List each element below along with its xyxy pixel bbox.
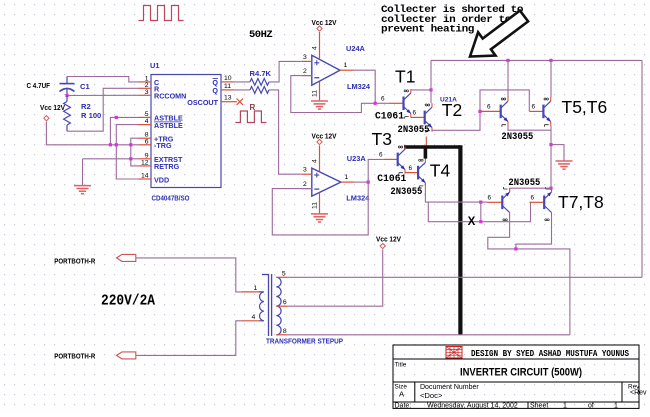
svg-text:6: 6 [413, 109, 417, 116]
junction U23A output node [367, 181, 370, 184]
wire: C1 top plate to U1 pin 1 [67, 77, 139, 82]
wire: output node up to T3 base [368, 159, 384, 182]
U24A pin11 + ground [311, 82, 328, 110]
svg-text:6: 6 [381, 95, 385, 102]
junction emitter bus at T7/T8 [549, 187, 552, 190]
junction T5 base node [478, 110, 481, 113]
svg-text:6: 6 [488, 195, 492, 202]
wire: X loop down [428, 202, 530, 222]
junction T7 base node [479, 201, 482, 204]
svg-text:2: 2 [303, 68, 307, 75]
title block frame [393, 345, 639, 408]
svg-text:2N3055: 2N3055 [398, 125, 430, 136]
svg-text:PORTBOTH-R: PORTBOTH-R [54, 354, 95, 361]
svg-text:Vcc 12V: Vcc 12V [376, 235, 401, 244]
capacitor C1 [60, 77, 75, 96]
svg-text:T5,T6: T5,T6 [562, 97, 608, 117]
wire: U1 pin 5 branch [110, 117, 138, 144]
svg-text:T7,T8: T7,T8 [558, 192, 604, 212]
wire: Vcc to U1 pin 6 row [46, 122, 138, 145]
svg-text:4: 4 [145, 118, 149, 125]
resistor R (lower 4.7K) [250, 87, 269, 94]
svg-text:14: 14 [141, 173, 149, 180]
svg-text:T4: T4 [430, 161, 451, 181]
wire: Vcc to U24A pin4 [319, 32, 321, 59]
junction X row [479, 220, 482, 223]
wire: transformer pin8 long line [288, 334, 570, 336]
label R2 / R 100 [81, 102, 101, 120]
svg-text:C 4.7UF: C 4.7UF [27, 81, 51, 90]
svg-text:6: 6 [532, 104, 536, 111]
svg-text:1: 1 [345, 174, 349, 181]
ground (T5/T6 emitters) [556, 145, 573, 170]
thick net: T3/T4 collectors + T2 emitter bus (horizontal) [404, 145, 460, 149]
svg-text:2: 2 [145, 82, 149, 89]
junction U24A output node [374, 102, 377, 105]
U23A pin2 stub [302, 181, 312, 189]
wire: R4.7K to U24A pin3 [269, 61, 302, 82]
top collector rail [431, 59, 642, 61]
svg-text:U1: U1 [150, 61, 159, 70]
svg-text:Vcc 12V: Vcc 12V [312, 18, 337, 27]
power symbol Vcc 12V (left) [40, 103, 65, 121]
svg-text:of: of [588, 402, 594, 409]
svg-text:Vcc 12V: Vcc 12V [40, 103, 65, 112]
svg-text:Title: Title [395, 362, 407, 369]
IC U1 CD4047B/SO body [151, 75, 221, 188]
junction emitters/ground [549, 143, 552, 146]
svg-text:2N3055: 2N3055 [508, 178, 540, 189]
svg-text:9: 9 [145, 152, 149, 159]
transistor T8 2N3055 (flipped) [530, 195, 545, 203]
svg-text:Sheet: Sheet [530, 402, 548, 409]
transistor T4 2N3055 [418, 158, 425, 188]
svg-text:CD4047B/SO: CD4047B/SO [152, 194, 190, 203]
svg-text:DESIGN BY SYED ASHAD MUSTUFA Y: DESIGN BY SYED ASHAD MUSTUFA YOUNUS [471, 348, 629, 359]
wire: U24A feedback loop [291, 76, 375, 113]
wire: T7 collector path [488, 216, 570, 334]
svg-text:LM324: LM324 [347, 82, 371, 91]
svg-text:2N3055: 2N3055 [501, 132, 533, 143]
wire: U23A output stub to node [354, 181, 368, 183]
note arrow (hollow, pointing down-left) [470, 11, 528, 57]
wire: T7/T8 emitter row [510, 187, 552, 189]
wire: lower resistor to U23A pin3 [269, 90, 302, 174]
junction pin5 vertical [109, 143, 112, 146]
svg-text:6: 6 [409, 165, 413, 172]
U24A output pin1 stub [340, 62, 353, 70]
transistor T5 2N3055 [501, 97, 508, 127]
op-amp U24A [312, 55, 340, 85]
U1 right pin stubs 10/11/13 [221, 75, 237, 102]
wire: U1 pins 4/14 branch [116, 125, 138, 179]
junction T1 collector / rail drop [429, 88, 432, 91]
op-amp U23A [312, 168, 341, 196]
junction: C1/R2/pin3 node [65, 94, 68, 97]
svg-text:-TRG: -TRG [154, 141, 172, 150]
transistor T7 2N3055 (flipped) [487, 195, 503, 203]
transistor T2 2N3055 [411, 109, 425, 117]
svg-text:TRANSFORMER STEPUP: TRANSFORMER STEPUP [266, 337, 343, 346]
svg-text:C1061: C1061 [377, 174, 406, 185]
svg-text:4: 4 [252, 314, 256, 321]
svg-text:3: 3 [303, 54, 307, 61]
svg-text:PORTBOTH-R: PORTBOTH-R [54, 258, 95, 265]
svg-text:6: 6 [145, 138, 149, 145]
port PORTBOTH-R (upper) [54, 254, 136, 265]
svg-text:2: 2 [303, 181, 307, 188]
wire: right edge vertical (rail to transformer pin5) [641, 60, 643, 277]
U1 left pin stubs with numbers [139, 75, 152, 179]
svg-text:4: 4 [312, 159, 319, 163]
transformer pin numbers 1/4/5/6/8 [252, 270, 287, 335]
wire: T5 collector riser [507, 60, 509, 97]
title block logo [446, 347, 462, 359]
svg-text:6: 6 [487, 104, 491, 111]
transformer TRANSFORMER STEPUP [242, 274, 288, 336]
svg-text:8: 8 [283, 328, 287, 335]
wire: T5 emitter to T6 emitter row [508, 125, 551, 130]
junction pin4/Vcc crossing [115, 143, 118, 146]
svg-text:4: 4 [312, 46, 319, 50]
power symbol Vcc 12V (U24A) [312, 18, 337, 31]
wire: X loop mid riser [480, 202, 482, 222]
svg-text:prevent heating: prevent heating [381, 24, 474, 36]
svg-text:C1: C1 [80, 82, 90, 91]
U24A pin2 stub [302, 68, 312, 76]
svg-text:R4.7K: R4.7K [250, 69, 272, 78]
svg-text:220V/2A: 220V/2A [101, 293, 155, 310]
wire: U1 pin11 to lower resistor [234, 89, 251, 91]
svg-text:Date:: Date: [395, 402, 412, 409]
resistor R4.7K (upper) [250, 79, 269, 86]
svg-text:5: 5 [282, 270, 286, 277]
junction rail/T5 collector [506, 59, 509, 62]
note: collector shorted text [381, 4, 523, 36]
svg-text:11: 11 [312, 90, 319, 97]
wire: to ground stub [551, 144, 564, 146]
wire: emitter bus down [550, 125, 552, 188]
wire: T7 emitter stub join [509, 188, 511, 192]
svg-text:T2: T2 [442, 100, 462, 120]
svg-text:Vcc 12V: Vcc 12V [312, 132, 337, 141]
wire: transformer pin6 to Vcc [288, 249, 383, 306]
wire: T4 emitter to T7 base row [425, 187, 486, 202]
svg-text:T3: T3 [372, 129, 392, 149]
svg-text:1: 1 [614, 402, 618, 409]
wire: top rail vertical drop to T2 collector [430, 60, 432, 103]
svg-text:LM324: LM324 [346, 194, 370, 203]
svg-text:50HZ: 50HZ [249, 29, 272, 41]
U1 pin name labels [154, 78, 219, 185]
svg-text:T1: T1 [395, 67, 415, 87]
U23A pin11 + ground [311, 192, 328, 222]
svg-text:1: 1 [254, 285, 258, 292]
no-connect X on pin 13 [237, 99, 243, 105]
svg-text:1: 1 [563, 402, 567, 409]
thick net: stub down to T4 collector [424, 147, 428, 159]
square-wave symbol (pin13) [235, 111, 266, 123]
wire: upper port to transformer pin1 [136, 258, 242, 292]
U23A output pin1 stub [341, 174, 354, 182]
svg-text:Wednesday, August 14, 2002: Wednesday, August 14, 2002 [427, 402, 518, 409]
port PORTBOTH-R (lower) [54, 352, 136, 361]
svg-text:<Rev: <Rev [630, 390, 647, 397]
svg-text:6: 6 [531, 195, 535, 202]
junction pins8-12/Vcc [129, 143, 132, 146]
svg-text:VDD: VDD [154, 176, 169, 185]
svg-text:10: 10 [224, 75, 232, 82]
svg-text:INVERTER CIRCUIT (500W): INVERTER CIRCUIT (500W) [460, 367, 582, 379]
svg-text:R2: R2 [81, 102, 91, 111]
svg-text:5: 5 [145, 111, 149, 118]
wire: T2 emitter to T5/T6 base drive [432, 111, 480, 131]
wire: lower port to transformer pin4 [136, 321, 242, 356]
svg-text:1: 1 [344, 62, 348, 69]
svg-text:11: 11 [312, 202, 319, 209]
wire: T2 emitter drop to thick bus [425, 137, 427, 147]
size row labels [395, 384, 648, 401]
svg-text:<Doc>: <Doc> [420, 391, 443, 400]
ground (U1 area) [74, 159, 91, 194]
wire: U24A output down to T1 base row [353, 70, 375, 103]
svg-text:R 100: R 100 [81, 111, 101, 120]
wire: T6 base stub [529, 104, 543, 112]
wire: T5 base stub [480, 104, 501, 112]
wire: ground to U1 pin 9 [83, 158, 139, 160]
svg-text:RCCOMN: RCCOMN [154, 92, 186, 101]
svg-text:ASTBLE: ASTBLE [154, 121, 183, 130]
junction rail/T6 collector [549, 59, 552, 62]
svg-text:12: 12 [141, 159, 149, 166]
svg-text:11: 11 [224, 83, 231, 90]
wire: output node to T1 base [375, 102, 389, 104]
svg-text:U23A: U23A [347, 154, 367, 163]
wire: U1 pins 8/12 branch [131, 138, 139, 166]
transistor T6 2N3055 [543, 97, 550, 127]
svg-text:13: 13 [224, 95, 232, 102]
power symbol Vcc 12V (U23A) [312, 132, 337, 145]
resistor R2 [64, 96, 71, 132]
svg-text:2N3055: 2N3055 [390, 187, 422, 198]
svg-text:Q: Q [212, 86, 218, 95]
svg-text:3: 3 [303, 167, 307, 174]
date row labels [395, 402, 619, 409]
wire: transformer pin5 to right edge [288, 276, 642, 278]
U23A pin3 stub [302, 167, 312, 175]
svg-text:6: 6 [283, 299, 287, 306]
transistor T3 C1061 [379, 151, 398, 159]
wire: U23A feedback loop [272, 182, 368, 235]
svg-text:3: 3 [145, 89, 149, 96]
svg-text:RETRG: RETRG [154, 162, 180, 171]
svg-text:OSCOUT: OSCOUT [187, 98, 218, 107]
wire: T8 collector path [516, 216, 552, 249]
svg-text:C1061: C1061 [375, 111, 404, 122]
wire: T3 collector stub to thick bus [404, 147, 406, 150]
wire: T1 collector to rail corner [411, 89, 431, 91]
wire: node to U1 pin 3 [67, 94, 139, 96]
transistor T1 C1061 [381, 95, 404, 103]
svg-text:Document Number: Document Number [420, 384, 479, 391]
svg-text:X: X [468, 216, 476, 228]
wire: U1 pin10 to R4.7K [234, 81, 251, 83]
thick net: main vertical to transformer pin8 line [458, 145, 462, 335]
svg-text:6: 6 [379, 151, 383, 158]
wire: T3 emitter to T4 base [405, 172, 418, 174]
U24A pin3 stub [302, 54, 312, 62]
wire: Vcc to U23A pin4 [319, 145, 321, 171]
wire: T6 collector riser [550, 60, 552, 97]
junction pin4 net [115, 116, 118, 119]
svg-text:U24A: U24A [346, 44, 366, 53]
junction T8 collector merge [514, 247, 517, 250]
square-wave symbol (top) [139, 6, 184, 21]
power symbol Vcc 12V (transformer) [376, 235, 401, 249]
junction pins8-12/gnd row [129, 157, 132, 160]
wire: R2 bottom to U1 pin 2 [67, 88, 139, 131]
wire: base loop up-over to T6 [480, 90, 529, 112]
